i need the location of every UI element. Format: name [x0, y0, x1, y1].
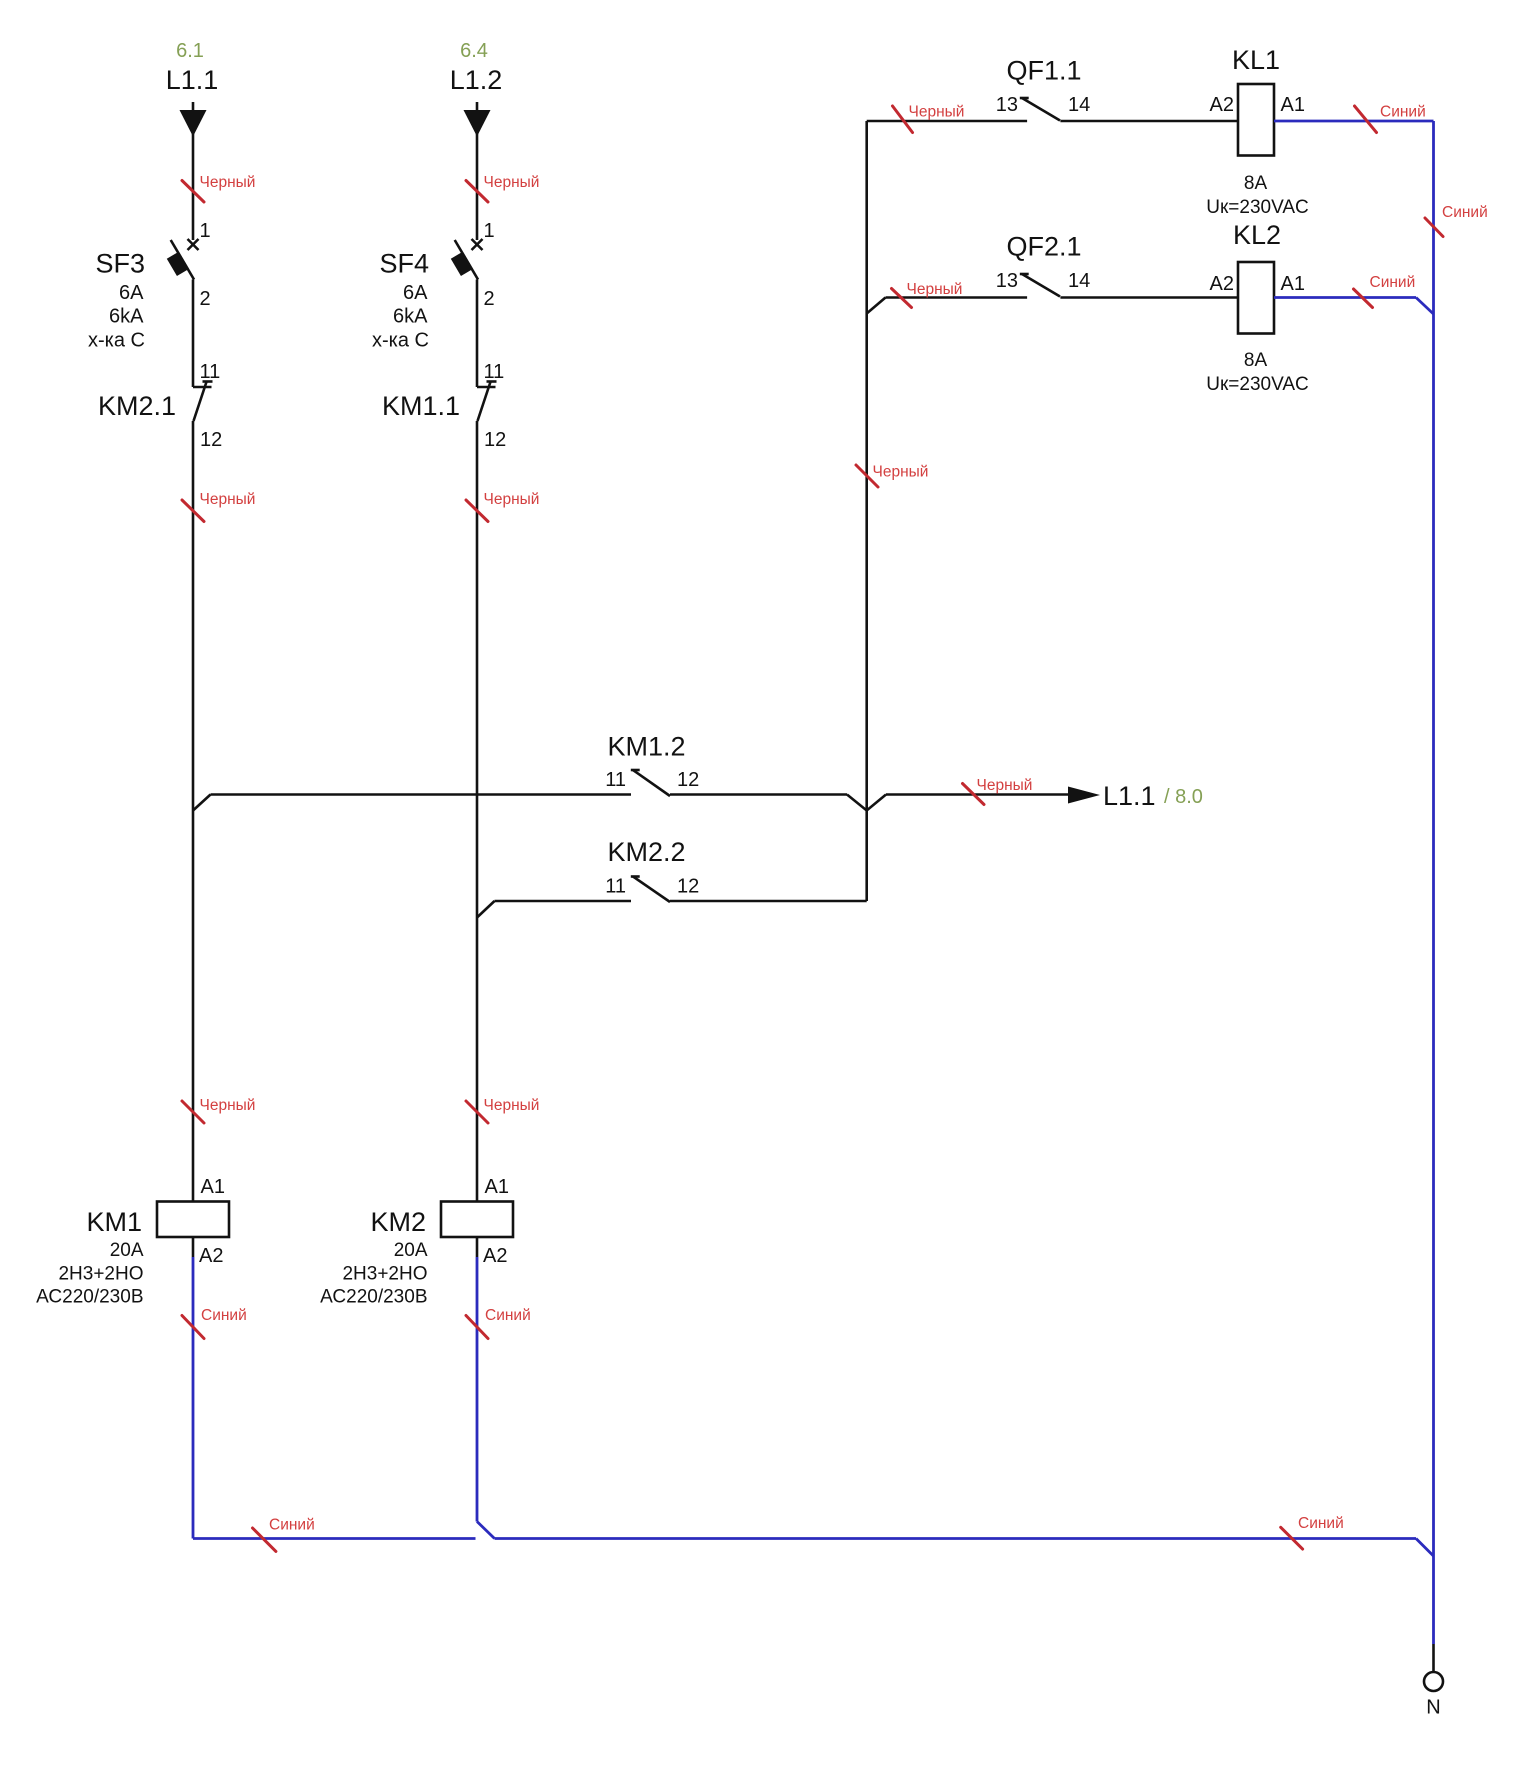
- wire junction V at vertical feeder: [847, 795, 886, 811]
- wire color flag Черный (above coil KM1): [182, 1101, 204, 1123]
- svg-text:Uк=230VAC: Uк=230VAC: [1206, 197, 1309, 218]
- wire color flag Синий (bus right): [1281, 1527, 1303, 1549]
- svg-text:14: 14: [1068, 270, 1090, 292]
- wire coil KM1 pin A2 stub: [192, 1237, 195, 1257]
- wire QF1.1 pin 14 to KL1 pin A2: [1060, 120, 1238, 123]
- svg-text:Черный: Черный: [484, 174, 540, 191]
- svg-text:11: 11: [605, 769, 626, 791]
- contact KM2.2 (NO): [631, 877, 670, 903]
- svg-text:12: 12: [484, 429, 506, 451]
- wire tap from L1.1 branch to KM1.2 pin 11: [193, 795, 211, 811]
- svg-text:14: 14: [1068, 94, 1090, 116]
- svg-text:Синий: Синий: [201, 1307, 247, 1324]
- svg-text:2Н3+2НО: 2Н3+2НО: [58, 1264, 143, 1285]
- svg-text:A2: A2: [199, 1245, 223, 1267]
- svg-text:Черный: Черный: [873, 464, 929, 481]
- wire blue neutral from KM2 A2: [476, 1257, 479, 1522]
- svg-text:20A: 20A: [394, 1240, 428, 1261]
- wire KM2.2 pin 11 side: [495, 900, 632, 903]
- svg-text:/ 8.0: / 8.0: [1164, 786, 1203, 808]
- contactor coil KM1: [157, 1202, 229, 1238]
- svg-text:13: 13: [996, 270, 1018, 292]
- svg-text:KL1: KL1: [1232, 45, 1280, 75]
- svg-text:Черный: Черный: [200, 491, 256, 508]
- svg-text:6kA: 6kA: [109, 306, 144, 328]
- sheet exit arrow L1.1: [1068, 787, 1100, 804]
- wire color flag Синий (below coil KM2): [466, 1316, 488, 1339]
- svg-text:A1: A1: [1281, 94, 1305, 116]
- svg-text:N: N: [1426, 1697, 1440, 1719]
- wire L1.2 into breaker SF4 pin 1: [476, 102, 479, 240]
- svg-text:12: 12: [677, 769, 699, 791]
- svg-text:11: 11: [484, 361, 505, 383]
- wire join to neutral bus: [477, 1522, 495, 1539]
- svg-text:KM1: KM1: [86, 1207, 142, 1237]
- svg-text:Черный: Черный: [200, 1097, 256, 1114]
- contact KM2.1 (NC): [193, 382, 213, 422]
- wire blue neutral riser: [1432, 121, 1435, 1556]
- wire tap from L1.2 branch to KM2.2 pin 11: [477, 901, 495, 918]
- relay coil KL2: [1238, 262, 1274, 334]
- wire SF4 pin 2 to contact KM1.1 pin 11: [476, 280, 479, 388]
- svg-text:Черный: Черный: [484, 491, 540, 508]
- svg-text:Черный: Черный: [484, 1097, 540, 1114]
- wire blue neutral from KM1 A2: [192, 1257, 195, 1539]
- svg-text:х-ка С: х-ка С: [88, 330, 145, 352]
- wire blue neutral bus right segment: [495, 1537, 1417, 1540]
- svg-text:A2: A2: [1210, 94, 1234, 116]
- wire join KL2 to neutral riser: [1416, 298, 1434, 315]
- wire color flag Синий (bus left): [253, 1528, 276, 1551]
- svg-text:АС220/230В: АС220/230В: [320, 1287, 427, 1308]
- svg-text:АС220/230В: АС220/230В: [36, 1287, 143, 1308]
- wire L1.1 into breaker SF3 pin 1: [192, 102, 195, 240]
- svg-text:12: 12: [677, 876, 699, 898]
- wire color flag Черный (below KM1.1): [466, 500, 488, 522]
- svg-text:8A: 8A: [1244, 173, 1268, 194]
- contact QF1.1 (NO): [1020, 98, 1060, 121]
- contactor coil KM2: [441, 1202, 513, 1238]
- svg-text:6A: 6A: [119, 282, 144, 304]
- svg-text:6A: 6A: [403, 282, 428, 304]
- wire color flag Черный (top of SF4): [466, 181, 488, 203]
- svg-text:х-ка С: х-ка С: [372, 330, 429, 352]
- svg-text:6kA: 6kA: [393, 306, 428, 328]
- wire KM1.1 pin 12 down to coil KM2 pin A1: [476, 421, 479, 1202]
- svg-text:L1.1: L1.1: [1103, 781, 1156, 811]
- svg-text:2Н3+2НО: 2Н3+2НО: [342, 1264, 427, 1285]
- wire blue KL1 A1 to neutral riser: [1274, 120, 1434, 123]
- wire KM1.2 pin 11 side: [211, 793, 632, 796]
- svg-text:L1.1: L1.1: [166, 65, 219, 95]
- svg-text:Синий: Синий: [485, 1307, 531, 1324]
- svg-text:KM2.2: KM2.2: [607, 837, 685, 867]
- wire KM1.2 pin 12 to junction: [670, 793, 847, 796]
- svg-text:8A: 8A: [1244, 350, 1268, 371]
- wire color flag Черный (QF1.1): [893, 106, 913, 133]
- svg-text:A2: A2: [483, 1245, 507, 1267]
- svg-text:QF2.1: QF2.1: [1006, 232, 1081, 262]
- wire blue riser to N terminal: [1432, 1556, 1435, 1644]
- wire color flag Синий (neutral riser): [1425, 218, 1443, 237]
- svg-text:Черный: Черный: [977, 777, 1033, 794]
- svg-text:20A: 20A: [110, 1240, 144, 1261]
- wire color flag Черный (QF2.1): [892, 289, 912, 308]
- wire KM2.1 pin 12 down to coil KM1 pin A1: [192, 421, 195, 1202]
- wire color flag Черный (below KM2.1): [182, 500, 204, 522]
- wire QF2.1 pin 13 side: [886, 296, 1028, 299]
- svg-text:A1: A1: [201, 1176, 225, 1198]
- svg-text:12: 12: [200, 429, 222, 451]
- svg-text:KM2.1: KM2.1: [98, 391, 176, 421]
- wire color flag Синий (KL2): [1354, 289, 1373, 308]
- svg-text:Черный: Черный: [907, 281, 963, 298]
- wire blue KL2 A1 toward neutral riser: [1274, 296, 1416, 299]
- svg-text:KM1.2: KM1.2: [607, 732, 685, 762]
- wire color flag Черный (above coil KM2): [466, 1101, 488, 1123]
- wire feeder to QF1.1 pin 13: [867, 120, 1027, 123]
- wire KM2.2 pin 12 to vertical feeder: [670, 900, 867, 903]
- svg-text:KL2: KL2: [1233, 220, 1281, 250]
- wire coil KM2 pin A2 stub: [476, 1237, 479, 1257]
- svg-text:Синий: Синий: [1370, 274, 1416, 291]
- wire color flag Черный (vertical feeder): [856, 465, 878, 487]
- svg-text:Черный: Черный: [909, 104, 965, 121]
- svg-text:1: 1: [484, 220, 495, 242]
- svg-text:11: 11: [200, 361, 221, 383]
- svg-text:L1.2: L1.2: [450, 65, 503, 95]
- svg-text:Синий: Синий: [1380, 104, 1426, 121]
- sheet entry arrow L1.1: [180, 110, 207, 137]
- svg-text:A1: A1: [485, 1176, 509, 1198]
- svg-text:KM1.1: KM1.1: [382, 391, 460, 421]
- svg-text:Uк=230VAC: Uк=230VAC: [1206, 374, 1309, 395]
- svg-text:A2: A2: [1210, 273, 1234, 295]
- svg-text:KM2: KM2: [370, 1207, 426, 1237]
- svg-text:Синий: Синий: [269, 1517, 315, 1534]
- sheet entry arrow L1.2: [464, 110, 491, 137]
- svg-text:SF3: SF3: [95, 249, 145, 279]
- contact KM1.2 (NO): [631, 770, 670, 796]
- svg-text:2: 2: [200, 288, 211, 310]
- wire vertical feeder lower part: [865, 811, 868, 902]
- wire QF2.1 pin 14 to KL2 pin A2: [1060, 296, 1238, 299]
- svg-text:QF1.1: QF1.1: [1006, 56, 1081, 86]
- wire color flag Черный (to L1.1 out): [963, 784, 985, 805]
- svg-text:6.1: 6.1: [176, 40, 204, 62]
- svg-text:6.4: 6.4: [460, 40, 488, 62]
- contact KM1.1 (NC): [477, 382, 497, 422]
- svg-text:13: 13: [996, 94, 1018, 116]
- svg-text:Синий: Синий: [1298, 1515, 1344, 1532]
- wire color flag Синий (KL1): [1355, 106, 1377, 133]
- svg-text:Черный: Черный: [200, 174, 256, 191]
- svg-text:A1: A1: [1281, 273, 1305, 295]
- wire SF3 pin 2 to contact KM2.1 pin 11: [192, 280, 195, 388]
- wire black stub to N terminal: [1432, 1644, 1435, 1671]
- terminal N (circle): [1424, 1672, 1443, 1691]
- relay coil KL1: [1238, 84, 1274, 156]
- circuit breaker SF3: [167, 239, 199, 280]
- circuit breaker SF4: [451, 239, 483, 280]
- svg-text:11: 11: [605, 876, 626, 898]
- wire color flag Черный (top of SF3): [182, 181, 204, 203]
- svg-text:SF4: SF4: [379, 249, 429, 279]
- wire blue neutral bus left segment: [193, 1537, 476, 1540]
- contact QF2.1 (NO): [1020, 274, 1060, 297]
- svg-text:2: 2: [484, 288, 495, 310]
- wire vertical feeder (black): [865, 121, 868, 811]
- wire tap from feeder to QF2.1 pin 13: [867, 298, 886, 314]
- svg-text:1: 1: [200, 220, 211, 242]
- wire join bus to neutral riser: [1416, 1539, 1434, 1557]
- svg-text:Синий: Синий: [1442, 204, 1488, 221]
- wire color flag Синий (below coil KM1): [182, 1316, 204, 1339]
- wire junction to sheet-out arrow: [886, 793, 1068, 796]
